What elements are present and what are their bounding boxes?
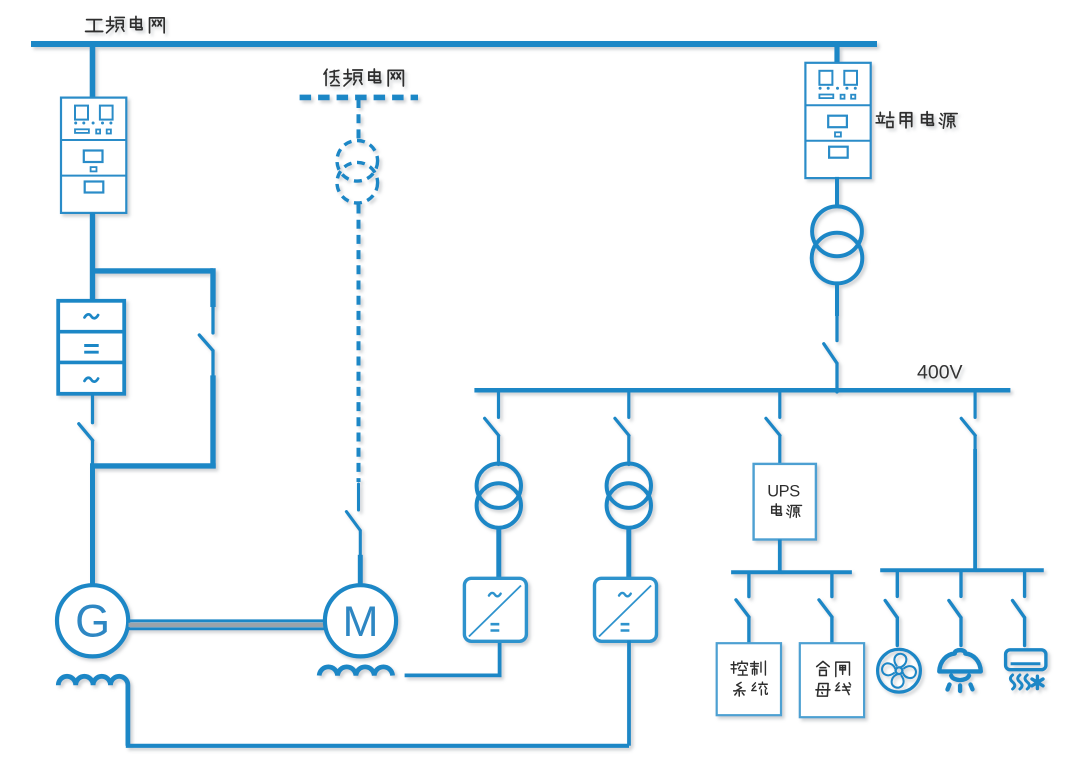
shaft G-M gray core: [129, 623, 326, 627]
transformer T2: [812, 206, 863, 283]
disconnector station supply: [824, 316, 837, 392]
wire bus to cabinet K1: [90, 44, 96, 99]
bus 低频电网 dashed bus: [300, 95, 418, 101]
label 低频电网: [324, 69, 403, 86]
disconnector QS bypass blade: [199, 307, 213, 375]
shaft G-M lower line: [129, 627, 326, 630]
breaker feeder5: [961, 392, 975, 450]
motor excitation winding: [319, 667, 392, 676]
aircon icon: [1006, 650, 1046, 689]
converter U2 (~/=): [464, 578, 526, 641]
breaker aircon: [1013, 571, 1025, 646]
box 合闸母线: [800, 643, 864, 717]
wire into motor: [358, 555, 363, 586]
converter U1 (~ = ~): [58, 301, 124, 394]
breaker feeder1: [485, 392, 499, 465]
wire bypass top: [93, 268, 214, 273]
dashed wire T1 down: [357, 205, 361, 483]
wire bypass bottom: [90, 463, 216, 468]
wire T2 down: [835, 283, 839, 316]
bus 工频电网 main bus: [31, 41, 877, 47]
breaker feeder3 UPS: [766, 392, 780, 465]
wire T4 to converter U3: [626, 528, 631, 579]
UPS box: [754, 464, 816, 540]
wire bypass right lower: [210, 375, 215, 468]
wire U3 to bottom bus: [627, 641, 631, 746]
svg-text:M: M: [343, 598, 379, 646]
svg-text:G: G: [75, 596, 110, 647]
fan icon: [878, 649, 921, 692]
bottom bus wire: [126, 744, 629, 748]
generator excitation winding: [58, 676, 128, 746]
breaker 控制系统: [736, 573, 749, 644]
dashed wire to transformer T1: [357, 99, 361, 141]
breaker 合闸母线: [819, 573, 832, 644]
transformer T4: [607, 464, 651, 528]
wire bus to cabinet K2: [834, 44, 839, 64]
label 站用电源: [876, 112, 957, 129]
wire motor winding to converter U2: [405, 641, 500, 676]
sub-bus loads: [880, 568, 1044, 572]
switchgear cabinet K2: [805, 63, 870, 178]
wire cabinet K2 to transformer T2: [835, 177, 839, 208]
svg-text:400V: 400V: [917, 362, 963, 384]
disconnector below U1: [79, 395, 93, 467]
breaker feeder2: [615, 392, 629, 465]
UPS 电源 text: [772, 504, 802, 518]
wire feeder5 down: [973, 449, 977, 570]
wire cabinet K1 to converter U1: [90, 213, 95, 302]
transformer T3: [477, 464, 521, 528]
wire T3 to converter U2: [496, 528, 501, 579]
wire to generator: [90, 466, 95, 586]
shaft G-M upper line: [129, 619, 326, 622]
wire bypass right upper: [210, 268, 215, 307]
converter U3 (~/=): [595, 578, 657, 641]
svg-text:UPS: UPS: [767, 483, 800, 501]
sub-bus UPS: [731, 570, 852, 574]
label 工频电网: [86, 16, 165, 32]
text 控制: [731, 661, 765, 675]
switchgear cabinet K1: [61, 98, 126, 213]
wire UPS to sub-bus: [778, 540, 782, 573]
text 系统: [734, 682, 768, 696]
text 合闸: [817, 661, 850, 676]
text 母线: [816, 683, 851, 696]
box 控制系统: [717, 643, 781, 715]
breaker fan: [885, 571, 897, 646]
transformer T1 dashed circles: [337, 141, 378, 204]
disconnector above motor: [346, 484, 360, 555]
lamp icon: [939, 650, 981, 691]
generator G circle: [57, 585, 128, 656]
breaker lamp: [949, 571, 961, 646]
bus 400V: [474, 388, 1010, 393]
motor M circle: [325, 585, 396, 656]
